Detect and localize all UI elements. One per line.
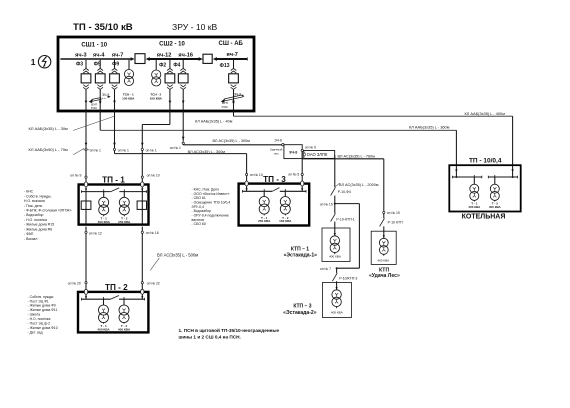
wire pole5 to ТП-3 right bushing [301, 176, 303, 183]
ТП-1 right entry wire through box [141, 187, 143, 225]
svg-text:оп № 9: оп № 9 [305, 146, 316, 150]
feeder bay Ф3 [81, 60, 91, 110]
substation ТП-1 box [79, 185, 149, 225]
pole оп № 16 [141, 231, 143, 233]
wire pole10 to ТП-3 bushing [246, 176, 248, 183]
svg-text:оп № 1: оп № 1 [170, 146, 181, 150]
svg-text:РЭС: РЭС [222, 105, 229, 109]
transformer 400 КВА (КТП-3) [332, 290, 341, 309]
transformer Т-1 400 КВА (ТП-2) [99, 299, 109, 324]
pole оп № 1 (Ф9) [113, 148, 115, 150]
svg-text:Ф5: Ф5 [94, 61, 101, 67]
ТП-1 consumers list [24, 190, 72, 241]
feeder bay Ф4 [178, 60, 188, 110]
overhead line ВЛ АС(3х35) L-760м to КТП Удача Лес [302, 159, 384, 212]
svg-text:Ф4: Ф4 [173, 62, 180, 68]
overhead line right (ТП-1 to ТП-2) [141, 233, 143, 281]
svg-text:ВЛ АС(3х35) L - 300м: ВЛ АС(3х35) L - 300м [213, 139, 251, 143]
svg-text:100 КВА: 100 КВА [150, 96, 163, 100]
svg-text:- Собств. нужды: - Собств. нужды [28, 295, 54, 299]
bus-tie breaker cell (СШ1/СШ2) [135, 54, 145, 64]
substation enclosure ТП-35/10 кВ / ЗРУ-10 кВ [58, 37, 254, 111]
svg-text:оп № 7: оп № 7 [320, 267, 331, 271]
pole оп № 22 (ТП-2 right) [141, 282, 143, 284]
note ЭЧ-9 with leader (left) [102, 93, 111, 98]
box ЭЧ-8 (Удачный лес) [284, 145, 302, 159]
bus СШ1-10 [60, 58, 131, 60]
bushing ТП-1 right entry [141, 182, 144, 187]
pole оп № 1 (Ф3) [85, 148, 87, 150]
ТП-3 consumers list [192, 187, 231, 226]
ТП-2 consumers list [28, 295, 58, 335]
svg-text:1. ПСН в щитовой ТП-35/10-неог: 1. ПСН в щитовой ТП-35/10-неогражденные [179, 327, 280, 333]
КТП-3 Эстакада-2 box [323, 283, 352, 318]
svg-text:- КНС: - КНС [24, 190, 34, 194]
svg-text:оп № 1: оп № 1 [146, 148, 157, 152]
overhead line Ф3 pole1 to ТП-1 left entry [85, 151, 87, 177]
КТП Удача Лес box [371, 231, 396, 264]
branch wire pole15 to оп № 7 (КТП-3 feed) [335, 204, 360, 269]
svg-text:КЛ ААБ(3х35) L - 400м: КЛ ААБ(3х35) L - 400м [465, 111, 506, 116]
svg-text:- Пож. депо: - Пож. депо [24, 204, 42, 208]
svg-text:ВЛ АС(3х35) L - 300м: ВЛ АС(3х35) L - 300м [188, 150, 226, 154]
svg-text:КТП – 1: КТП – 1 [291, 246, 309, 252]
bushing ТП-1 left entry [84, 182, 87, 187]
svg-text:ЭЧ-8: ЭЧ-8 [289, 151, 297, 155]
svg-text:ТП - 1: ТП - 1 [102, 175, 125, 184]
svg-text:- Пост ЭЦ Ф1: - Пост ЭЦ Ф1 [28, 299, 49, 303]
svg-text:КОТЕЛЬНАЯ: КОТЕЛЬНАЯ [462, 214, 506, 221]
svg-text:«Эстакада-2»: «Эстакада-2» [283, 310, 317, 316]
svg-text:1: 1 [31, 57, 36, 67]
svg-text:- ФАП: - ФАП [24, 232, 34, 236]
bushing ТП-3 left entry [245, 181, 248, 186]
ТП-3 entry wires to bus [246, 186, 304, 191]
feeder bay Ф5 [95, 60, 105, 110]
svg-text:250 КВА: 250 КВА [258, 219, 271, 223]
svg-text:- Собств. Нужды,: - Собств. Нужды, [24, 194, 51, 198]
pole оп № 9 (ЭЧ-8 out) [301, 149, 303, 151]
svg-text:«Эстакада-1»: «Эстакада-1» [284, 252, 318, 258]
svg-text:ЭЧ-8: ЭЧ-8 [274, 139, 282, 143]
transformer Т-2 400 КВА (Котельная) [490, 177, 499, 202]
ТП-2 entry wires to bus [85, 294, 143, 299]
dot junction on Ф5 bay line [99, 102, 101, 104]
entry circle on ЭЧ-8 box [282, 144, 284, 146]
wire ОАО ЗЛПК to КТП-1 drop [334, 155, 336, 187]
КТП-1 Эстакада-1 box [322, 228, 350, 262]
svg-text:100 КВА: 100 КВА [122, 96, 135, 100]
source symbol 1 (generator) [38, 56, 50, 68]
svg-text:- Н.О. поселка: - Н.О. поселка [28, 317, 51, 321]
svg-text:- Жилые дома Ф6: - Жилые дома Ф6 [24, 227, 52, 231]
svg-text:- Пост ЭЦ ф-2: - Пост ЭЦ ф-2 [28, 322, 51, 326]
Котельная 0.4кВ bus (two sections) [453, 175, 518, 178]
svg-text:яч-4: яч-4 [93, 52, 105, 58]
svg-text:- Водозабор: - Водозабор [24, 213, 43, 217]
svg-text:лес: лес [274, 152, 280, 156]
bushing ТП-2 left entry [84, 289, 87, 294]
svg-text:оп № 15: оп № 15 [320, 202, 333, 206]
svg-text:ЗРУ - 10 кВ: ЗРУ - 10 кВ [172, 22, 218, 32]
transformer Т-2 160 КВА (ТП-3) [280, 191, 290, 216]
ТП-1 0.4кВ bus with switch [81, 188, 146, 193]
svg-text:ВЛ АС(3х35) L - 760м: ВЛ АС(3х35) L - 760м [338, 154, 376, 158]
wire into КТП-1 [334, 222, 336, 236]
svg-text:СШ1 - 10: СШ1 - 10 [81, 42, 107, 48]
transformer 400 КВА (КТП Удача Лес) [379, 238, 388, 256]
svg-text:Р-10 КТП: Р-10 КТП [388, 220, 404, 224]
svg-text:400 КВА: 400 КВА [118, 327, 131, 331]
transformer 400 КВА (КТП-1) [330, 236, 339, 255]
transformer Т-1 250 КВА (ТП-3) [259, 191, 269, 216]
svg-text:ТП - 10/0,4: ТП - 10/0,4 [469, 157, 502, 164]
wire to ТП-1 right bushing [141, 178, 143, 182]
svg-text:ВЛ АС(3х35) L - 2000м: ВЛ АС(3х35) L - 2000м [339, 183, 379, 187]
svg-text:Р-10-Ф4: Р-10-Ф4 [338, 190, 351, 194]
svg-text:160 КВА: 160 КВА [279, 219, 292, 223]
pole оп № 7 junction [336, 267, 338, 269]
cable Ф9 down to pole 1 [113, 111, 116, 148]
wire into КТП Удача Лес [383, 226, 385, 238]
bushing ТП-2 right entry [141, 289, 144, 294]
disconnector Р-10-Ф4 [331, 187, 336, 195]
cable Ф2 jog down to pole 1 [141, 111, 170, 148]
svg-text:- Ф-БПК, Ф-столовая «ЗПТЖ»: - Ф-БПК, Ф-столовая «ЗПТЖ» [24, 208, 72, 212]
cable Ф5 to Котельная left entry (КЛ ААБ(3х35) L-360м) [100, 111, 456, 165]
svg-text:- Жилые дома Ф9: - Жилые дома Ф9 [28, 304, 56, 308]
svg-text:- Жилые дома Ф11: - Жилые дома Ф11 [28, 308, 58, 312]
overhead line ВЛ АС(3х35) L-300м pole1 to ТП-3 left entry [115, 151, 247, 174]
transformer Т-1 400 КВА (ТП-1) [99, 192, 109, 217]
bushing ТП-3 right entry [301, 181, 304, 186]
svg-text:оп № 1: оп № 1 [90, 148, 101, 152]
ТП-1 left entry wire through box [85, 187, 87, 225]
transformer Т-2 250 КВА (ТП-1) [119, 192, 129, 217]
boundary marker ВУП РЭС (left, on Ф5) [89, 98, 102, 103]
wire ТП-1 right down to pole 16 [141, 227, 143, 232]
cable Ф3 down to pole 1 [85, 111, 88, 148]
overhead line ВЛ АС(3х35) L-500м left (ТП-1 to ТП-2) [85, 233, 87, 281]
wire pole9 to ТП-1 bushing [85, 178, 87, 182]
svg-text:- Дет. сад: - Дет. сад [28, 330, 43, 334]
svg-text:КТП – 3: КТП – 3 [293, 303, 311, 309]
svg-text:оп № 16: оп № 16 [146, 231, 159, 235]
svg-text:оп № 9: оп № 9 [70, 174, 81, 178]
svg-text:ВЛ АС(3х35) L - 500м: ВЛ АС(3х35) L - 500м [157, 253, 198, 258]
wire into КТП-3 [336, 281, 338, 290]
substation ТП-2 box [78, 292, 148, 333]
substation ТП-3 box [239, 184, 310, 226]
wire ТП-1 left down to pole 12 [85, 227, 87, 232]
ТП-1 left LV cabinet [81, 201, 91, 209]
svg-text:КЛ ААБ(3х35) L - 40м: КЛ ААБ(3х35) L - 40м [195, 120, 233, 124]
svg-text:- Жилые дома Ф10: - Жилые дома Ф10 [28, 326, 58, 330]
svg-text:оп № 20: оп № 20 [68, 281, 81, 285]
feeder bay Ф2 [165, 60, 175, 110]
ТП-3 0.4кВ bus with switch [243, 188, 307, 193]
svg-text:ТП - 3: ТП - 3 [263, 175, 286, 184]
svg-text:- Н.О. поселка: - Н.О. поселка [24, 218, 47, 222]
transformer Т-2 400 КВА (ТП-2) [119, 299, 129, 324]
svg-text:СШ - АБ: СШ - АБ [219, 41, 244, 47]
box ОАО ЗЛПК [304, 151, 335, 159]
pole оп № 19 (Удача Лес) [383, 211, 385, 213]
transformer Т-1 400 КВА (Котельная) [470, 177, 479, 202]
ТП-1 right LV cabinet [137, 201, 146, 209]
svg-text:Р-10-КТП-1: Р-10-КТП-1 [336, 217, 354, 221]
pole оп № 10 (ТП-3 left) [246, 173, 248, 175]
feeder bay Ф9 [110, 60, 120, 110]
pole оп № 12 [85, 231, 87, 233]
svg-text:400 КВА: 400 КВА [98, 220, 111, 224]
svg-text:оп № 19: оп № 19 [387, 211, 400, 215]
overhead line ВЛ АС(3х35) L-300м Ф4 to ЭЧ-8 [183, 143, 282, 146]
svg-text:400 КВА: 400 КВА [468, 205, 481, 209]
station transformer ТСН-2 100 КВА [152, 60, 161, 86]
svg-text:250 КВА: 250 КВА [118, 220, 131, 224]
svg-text:оп № 5: оп № 5 [288, 173, 299, 177]
wire to pole 15 [334, 196, 336, 214]
disconnector Р-10-КТП-1 [331, 213, 336, 221]
overhead line Ф2 pole1 to ТП-1 right entry [141, 151, 143, 177]
svg-text:400 КВА: 400 КВА [97, 327, 110, 331]
disconnector Р-10/КТП-3 [332, 268, 337, 281]
svg-text:400 КВА: 400 КВА [331, 310, 344, 314]
svg-text:оп № 10: оп № 10 [147, 174, 160, 178]
svg-text:Р-10/КТП-3: Р-10/КТП-3 [339, 276, 357, 280]
note 1. ПСН в щитовой [179, 327, 280, 340]
svg-text:яч-7: яч-7 [226, 52, 238, 58]
pole оп № 20 (ТП-2 left) [85, 282, 87, 284]
svg-text:«Удача Лес»: «Удача Лес» [369, 273, 400, 279]
bus-tie breaker cell (СШ2/СШ-АБ) [203, 54, 212, 63]
svg-text:яч-3: яч-3 [75, 52, 87, 58]
svg-text:Ф13: Ф13 [220, 63, 230, 69]
pole оп № 1 (Ф4) [182, 142, 184, 144]
cable Ф13 to Котельная right entry (КЛ ААБ(3х35) L-400м) [234, 111, 513, 165]
svg-text:400 КВА: 400 КВА [329, 255, 342, 259]
svg-text:Ф3: Ф3 [76, 61, 83, 67]
svg-text:оп № 12: оп № 12 [89, 231, 102, 235]
svg-text:оп № 22: оп № 22 [147, 281, 160, 285]
bus СШ2-10 [149, 58, 199, 60]
svg-text:яч-16: яч-16 [178, 53, 193, 59]
pole оп № 10 (ТП-1 right) [141, 176, 143, 178]
svg-text:400 КВА: 400 КВА [377, 258, 390, 262]
svg-text:Ф9: Ф9 [112, 61, 119, 67]
svg-text:400 КВА: 400 КВА [489, 205, 502, 209]
pole оп № 9 (ТП-1 left) [85, 176, 87, 178]
station transformer ТСН-1 100 КВА [124, 60, 133, 86]
svg-text:оп № 1: оп № 1 [118, 148, 129, 152]
svg-text:Н.О. вокзала: Н.О. вокзала [24, 199, 45, 203]
svg-text:ТП - 2: ТП - 2 [105, 283, 128, 292]
dot junction on Ф13 bay line [233, 102, 235, 104]
Котельная entry wires to bus [455, 165, 514, 178]
svg-text:яч-12: яч-12 [157, 53, 172, 59]
svg-text:РЭС: РЭС [91, 106, 98, 110]
svg-text:КЛ ААБ(3х35) L - 360м: КЛ ААБ(3х35) L - 360м [409, 124, 450, 129]
disconnector Р-10 КТП [380, 214, 385, 227]
pole оп № 1 (Ф2) [141, 148, 143, 150]
svg-text:СШ2 - 10: СШ2 - 10 [159, 41, 185, 47]
pole оп № 15 junction [334, 203, 336, 205]
svg-text:- Жилые дома Ф15: - Жилые дома Ф15 [24, 223, 54, 227]
svg-text:ЭЧ-8: ЭЧ-8 [234, 92, 241, 96]
cable Ф4 down to pole 1 [182, 111, 185, 142]
wires poles to ТП-2 bushings [86, 284, 142, 290]
svg-text:яч-7: яч-7 [112, 52, 124, 58]
svg-text:КЛ ААБ(3х50) L - 70м: КЛ ААБ(3х50) L - 70м [29, 147, 69, 152]
substation ТП-10/0,4 box (Котельная) [449, 165, 520, 211]
svg-text:КЛ ААБ(3х35) L - 30м: КЛ ААБ(3х35) L - 30м [29, 126, 69, 131]
feeder bay Ф13 [229, 60, 239, 110]
wire ЭЧ-8 down to pole 5 [301, 151, 303, 173]
ТП-2 0.4кВ bus with switch [82, 296, 145, 301]
svg-text:Ф2: Ф2 [159, 62, 166, 68]
bus СШ-АБ [216, 58, 247, 60]
pole оп № 5 (ТП-3 right) [301, 173, 303, 175]
svg-text:ТП - 35/10 кВ: ТП - 35/10 кВ [73, 22, 133, 33]
boundary marker ВУП РЭС (right, on Ф13) [221, 95, 244, 103]
svg-text:шины 1 и 2 СШ 0,4 на ПСН.: шины 1 и 2 СШ 0,4 на ПСН. [179, 334, 241, 339]
svg-text:оп № 10: оп № 10 [250, 173, 263, 177]
svg-text:ОАО ЗЛПК: ОАО ЗЛПК [307, 152, 328, 157]
svg-text:- СБО 60: - СБО 60 [192, 222, 206, 226]
svg-text:- Вокзал: - Вокзал [24, 237, 37, 241]
svg-text:- Школа: - Школа [28, 313, 41, 317]
